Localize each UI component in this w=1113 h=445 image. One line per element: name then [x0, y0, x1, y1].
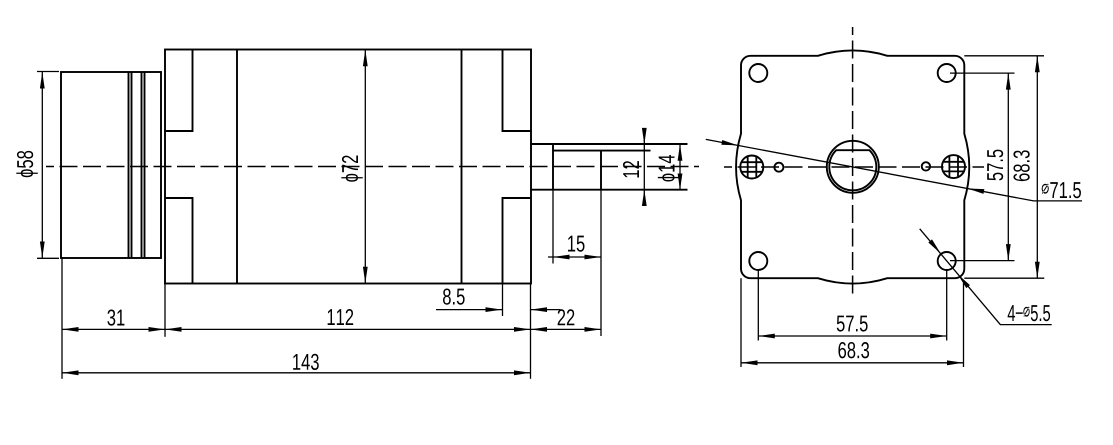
label 8.5	[443, 288, 465, 304]
arrow 12 top	[642, 128, 647, 145]
ext flange left down	[164, 284, 166, 337]
dim phi58 extension bottom	[37, 257, 59, 259]
ext 68.3v top	[964, 55, 1044, 57]
shaft boss circle	[827, 141, 879, 193]
ext shaft end down	[600, 190, 602, 336]
dim 68.3h line	[741, 362, 964, 364]
arrow 8.5 right	[531, 307, 548, 312]
arrow phi14 top	[678, 144, 683, 161]
arrow 31 left	[62, 327, 79, 332]
arrow 68.3h right	[947, 360, 964, 365]
front view horizontal centerline	[724, 166, 984, 168]
label 143	[293, 354, 319, 370]
dim phi14 line	[679, 144, 681, 190]
gearbox outline	[165, 50, 531, 284]
arrow 68.3v bottom	[1035, 262, 1040, 279]
shaft bottom edge + dim ext	[531, 189, 688, 191]
label ϕ58	[16, 151, 37, 177]
label 15	[568, 236, 584, 252]
shaft flat front line	[552, 144, 554, 190]
dim phi58 line	[41, 72, 43, 258]
ext 68.3h right	[963, 283, 965, 367]
label 68.3	[838, 342, 869, 358]
label ϕ14	[658, 155, 679, 182]
right screw circle	[942, 155, 965, 178]
left screw circle	[740, 156, 763, 179]
rear flange top notch	[165, 50, 193, 132]
ext 57.5v top	[950, 72, 1015, 74]
ext 57.5h left	[757, 270, 759, 341]
ext front face down	[530, 284, 532, 379]
front flange bottom notch	[503, 198, 532, 284]
ext shaft flat start down	[552, 190, 554, 264]
arrow 112 right	[514, 327, 531, 332]
arrow 15 left	[553, 255, 570, 260]
label ϕ71.5	[1042, 182, 1081, 198]
shaft flat edge + dim ext	[553, 150, 651, 152]
mounting hole bottom-right	[938, 252, 956, 270]
arrow 57.5v bottom	[1006, 244, 1011, 261]
arrow phi58 bottom	[40, 242, 45, 259]
shaft end face	[600, 151, 602, 190]
arrow 12 bottom	[642, 190, 647, 207]
arrow 68.3v top	[1035, 56, 1040, 73]
arrow 4-phi5.5 at hole	[928, 239, 942, 255]
dim chain line 31 112 22	[62, 328, 601, 330]
leader phi71.5	[706, 139, 1082, 201]
arrow 68.3h left	[741, 360, 758, 365]
left screw cross	[742, 156, 762, 178]
right pin hole	[922, 162, 930, 170]
arrow 8.5 left	[486, 307, 503, 312]
ext 8.5 notch down	[502, 284, 504, 317]
arrow 112 left	[165, 327, 182, 332]
shaft D-hole	[829, 150, 876, 190]
label 68.3	[1013, 150, 1029, 181]
arrow phi72 top	[363, 50, 368, 67]
front flange top notch	[503, 50, 532, 132]
ext cap left down	[61, 258, 63, 379]
rear flange bottom notch	[165, 198, 193, 284]
arrow 57.5h right	[930, 334, 947, 339]
label 112	[328, 309, 354, 325]
ext 57.5v bottom	[950, 260, 1015, 262]
dim 8.5 leader left	[436, 309, 502, 311]
dimension text labels	[16, 150, 1081, 370]
right screw cross	[944, 156, 964, 178]
leader 4-phi5.5	[920, 229, 1052, 325]
arrow 57.5h left	[758, 334, 775, 339]
label ϕ72	[341, 155, 362, 181]
dim 57.5h line	[758, 335, 946, 337]
label 22	[558, 309, 575, 325]
mounting hole top-left	[749, 64, 767, 82]
arrow 57.5v top	[1006, 73, 1011, 90]
arrow phi71.5 right	[967, 186, 984, 194]
dim 143 line	[62, 372, 531, 374]
arrow phi58 top	[40, 72, 45, 89]
mounting hole bottom-left	[749, 252, 767, 270]
label 57.5	[987, 150, 1003, 181]
mounting hole top-right	[938, 64, 956, 82]
shaft top edge + dim ext	[531, 143, 688, 145]
dim 68.3v line	[1036, 56, 1038, 278]
cap rib line pair B	[142, 72, 145, 258]
dim 15 line	[548, 256, 601, 258]
label 57.5	[837, 316, 868, 332]
ext 68.3h left	[740, 278, 742, 367]
rear flange / body joint line	[236, 50, 238, 284]
arrow 143 left	[62, 370, 79, 375]
side view centerline	[46, 166, 699, 168]
label 12	[623, 161, 639, 177]
label 4-ϕ5.5	[1008, 305, 1050, 321]
ext 57.5h right	[946, 270, 948, 341]
dim phi72 line	[364, 50, 366, 284]
arrow 22 left	[531, 327, 548, 332]
arrow 22 right	[585, 327, 602, 332]
arrow 143 right	[514, 370, 531, 375]
arrow 4-phi5.5 lower	[956, 272, 970, 288]
body / front flange joint line	[461, 50, 463, 284]
arrow phi14 bottom	[678, 174, 683, 191]
flange plate outline with body bulges	[736, 51, 969, 284]
ext 68.3v bottom	[964, 277, 1044, 279]
cap rib line pair A	[129, 72, 132, 258]
arrow 31 right	[149, 327, 166, 332]
label 31	[107, 309, 124, 325]
motor rear cap body	[61, 72, 161, 258]
arrow phi72 bottom	[363, 267, 368, 284]
dim 57.5v line	[1007, 73, 1009, 261]
arrow 15 right	[585, 255, 602, 260]
front view vertical centerline	[852, 27, 854, 298]
dim 8.5 tail right	[531, 309, 561, 311]
left pin hole	[774, 163, 783, 172]
dim phi58 extension top	[37, 71, 59, 73]
arrow phi71.5 left	[721, 140, 738, 148]
dim 12 line	[643, 134, 645, 205]
